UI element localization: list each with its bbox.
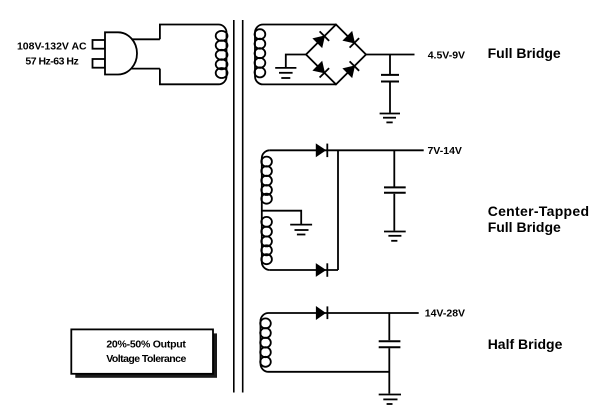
- ground G5: [379, 395, 401, 405]
- svg-text:Full Bridge: Full Bridge: [488, 219, 561, 235]
- wire bridge left vertex to ground: [286, 55, 306, 68]
- AC plug body: [105, 32, 137, 74]
- transformer core line right: [242, 20, 244, 393]
- svg-text:7V-14V: 7V-14V: [427, 145, 461, 157]
- wire S1 top to bridge: [263, 24, 336, 26]
- wire cap C1 lower lead: [389, 82, 391, 112]
- wire cap C1 upper lead: [389, 55, 391, 75]
- ground G4 cap C2: [384, 232, 406, 241]
- ground G3 center tap: [290, 225, 312, 235]
- svg-text:14V-28V: 14V-28V: [425, 307, 465, 319]
- wire S3 top rail: [269, 312, 419, 314]
- diode D5 top: [316, 144, 327, 158]
- svg-text:Voltage Tolerance: Voltage Tolerance: [106, 353, 186, 365]
- diode D1 top-left: [313, 31, 329, 47]
- wire cap C2 upper lead: [393, 150, 395, 186]
- svg-text:4.5V-9V: 4.5V-9V: [428, 50, 465, 62]
- svg-text:Full Bridge: Full Bridge: [488, 45, 561, 61]
- transformer core line left: [233, 20, 235, 393]
- transformer primary winding loops: [216, 31, 228, 78]
- diode D2 top-right: [343, 32, 359, 48]
- wire S1 bottom to bridge: [263, 83, 336, 85]
- wire S2 bottom: [270, 269, 338, 271]
- secondary winding S2 lower loops: [261, 217, 272, 264]
- AC plug lower prong: [93, 59, 106, 68]
- wire cap C3 lower lead to ground: [388, 348, 390, 393]
- secondary winding S3 outline: [261, 313, 269, 372]
- wire plug neck bottom: [131, 68, 160, 70]
- secondary winding S1 loops: [255, 29, 266, 77]
- wire cap C3 upper lead: [388, 313, 390, 340]
- AC plug upper prong: [93, 40, 106, 49]
- wire S2 center tap: [262, 211, 301, 224]
- svg-text:20%-50% Output: 20%-50% Output: [106, 339, 186, 351]
- wire bridge output: [366, 54, 415, 56]
- ground G1 bridge: [275, 68, 296, 78]
- diode D4 bottom-right: [343, 61, 359, 77]
- wire plug neck top: [132, 38, 160, 40]
- note box: [71, 329, 213, 373]
- wire S2 junction vertical: [337, 150, 339, 270]
- wire S2 top rail: [270, 149, 424, 151]
- ground G2 cap C1: [380, 114, 400, 123]
- diode D7: [316, 306, 327, 319]
- svg-text:Center-Tapped: Center-Tapped: [488, 203, 590, 219]
- capacitor C1: [381, 75, 399, 82]
- svg-text:57 Hz-63 Hz: 57 Hz-63 Hz: [25, 55, 78, 67]
- note box shadow: [75, 333, 217, 377]
- secondary winding S3 loops: [260, 318, 271, 366]
- svg-text:Half Bridge: Half Bridge: [488, 336, 563, 352]
- transformer primary outline: [160, 25, 227, 85]
- wire S3 bottom: [269, 371, 390, 373]
- diode D6 bottom: [316, 263, 327, 277]
- secondary winding S2 upper loops: [261, 157, 272, 204]
- diode D3 bottom-left: [313, 62, 329, 78]
- secondary winding S2 outline: [262, 150, 270, 270]
- secondary winding S1 outline: [255, 25, 263, 85]
- svg-text:108V-132V AC: 108V-132V AC: [17, 41, 87, 53]
- bridge diamond wires: [306, 25, 366, 85]
- capacitor C3: [379, 341, 401, 347]
- wire cap C2 lower lead: [393, 194, 395, 231]
- capacitor C2: [384, 187, 406, 192]
